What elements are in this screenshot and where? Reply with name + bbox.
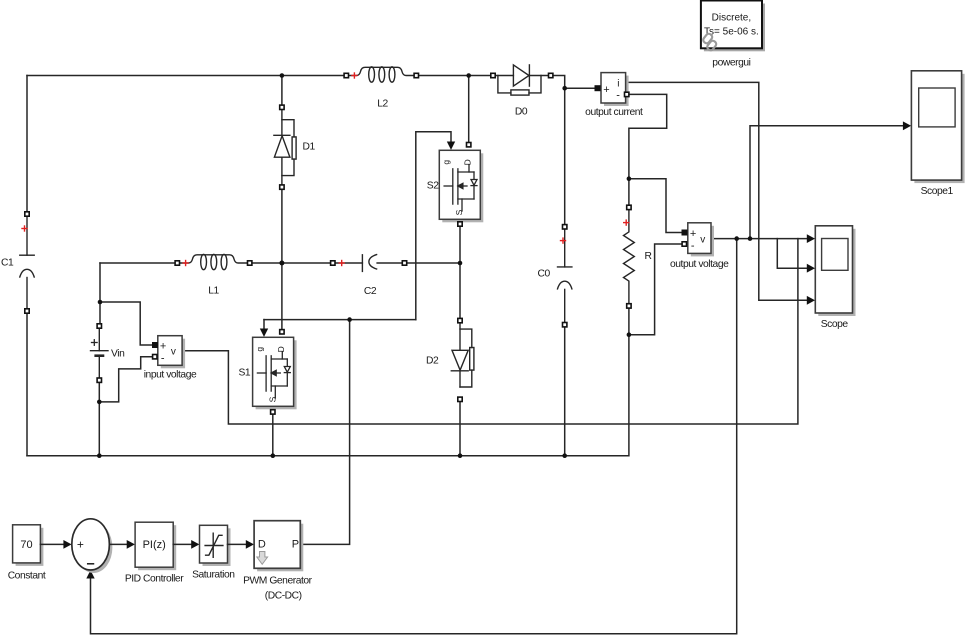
- svg-text:g: g: [441, 160, 451, 165]
- label R: [645, 251, 652, 262]
- wire Vin minus route: [99, 357, 155, 402]
- wire top rail left: [27, 75, 346, 77]
- scope Scope: [815, 226, 855, 316]
- label input voltage: [144, 370, 197, 381]
- svg-text:D: D: [463, 159, 473, 165]
- svg-text:PID Controller: PID Controller: [125, 574, 184, 585]
- constant block 70: [13, 525, 44, 566]
- port D1 bottom: [280, 185, 284, 189]
- port R top: [627, 205, 631, 209]
- wire C0 node drop: [564, 88, 566, 227]
- label powergui: [712, 57, 750, 68]
- port input voltage plus: [152, 342, 158, 348]
- DC source Vin: [91, 328, 109, 378]
- label output current: [585, 107, 643, 118]
- svg-text:R: R: [645, 251, 652, 262]
- arrowhead scope input3: [807, 296, 815, 305]
- port squares open: [25, 73, 687, 414]
- svg-text:-: -: [616, 89, 620, 101]
- arrowhead scope1 input: [903, 121, 911, 130]
- wire node to output voltage plus: [629, 179, 685, 233]
- wire output current minus route: [627, 94, 667, 178]
- wire gate S2 riser: [416, 132, 451, 320]
- voltmeter input voltage: [158, 336, 185, 369]
- red plus C1: [22, 226, 27, 231]
- node bus S1: [271, 453, 276, 458]
- svg-text:powergui: powergui: [712, 57, 750, 68]
- port output current minus: [625, 92, 629, 96]
- capacitor C1: [20, 216, 34, 309]
- diode D1: [274, 109, 296, 185]
- wire PID to saturation: [173, 543, 192, 545]
- label S1: [239, 368, 251, 379]
- wire input voltage to rail: [182, 239, 798, 424]
- red plus L2: [352, 73, 357, 78]
- port C0 top: [563, 225, 567, 229]
- arrowhead into PID: [127, 540, 135, 549]
- svg-text:input voltage: input voltage: [144, 370, 197, 381]
- sum junction block: [72, 519, 113, 573]
- wire saturation to PWM: [228, 543, 248, 545]
- wire L1 to C2: [250, 262, 333, 264]
- powergui block: [701, 1, 765, 52]
- node S2 drain tap: [466, 73, 471, 78]
- capacitor C0: [558, 229, 572, 323]
- node bus D2: [458, 453, 463, 458]
- svg-text:L2: L2: [377, 99, 388, 110]
- red plus C2: [339, 261, 344, 266]
- saturation block: [200, 525, 231, 566]
- port C2 right: [402, 261, 406, 265]
- label C0: [538, 269, 551, 280]
- voltmeter output voltage: [688, 223, 714, 257]
- svg-text:S: S: [454, 209, 464, 215]
- port R bottom: [627, 304, 631, 308]
- svg-text:+: +: [603, 84, 609, 96]
- node R tap: [627, 332, 632, 337]
- svg-text:Vin: Vin: [111, 349, 125, 360]
- wire S1 source to bus: [272, 406, 274, 455]
- label PID Controller: [125, 574, 184, 585]
- PID controller block: [135, 522, 176, 570]
- svg-text:70: 70: [20, 539, 32, 551]
- svg-text:Constant: Constant: [8, 571, 46, 582]
- arrowhead scope input1: [807, 234, 815, 243]
- wire C0 bottom to bus: [564, 325, 566, 456]
- label Vin: [111, 349, 125, 360]
- svg-text:g: g: [254, 347, 264, 352]
- label D0: [515, 107, 528, 118]
- arrowhead scope input2: [807, 264, 815, 273]
- label L1: [208, 286, 219, 297]
- label Scope: [821, 319, 849, 330]
- wire rail to Scope input2: [777, 239, 806, 269]
- port Vin bottom: [97, 378, 101, 382]
- transistor S1: [253, 337, 297, 409]
- node feedback tap: [734, 236, 739, 241]
- svg-text:S2: S2: [427, 181, 439, 192]
- port L2 left: [344, 73, 348, 77]
- node D0 C0: [562, 86, 567, 91]
- scope Scope1: [911, 71, 964, 183]
- port L2 right: [414, 73, 418, 77]
- wire S2 drain drop: [468, 76, 470, 145]
- arrowhead into PWM: [246, 540, 254, 549]
- port input voltage minus: [153, 355, 157, 359]
- diode D2: [451, 323, 474, 387]
- inductor L1: [180, 254, 248, 269]
- node bus Vin: [97, 453, 102, 458]
- node D1 top: [280, 73, 285, 78]
- port Vin top: [97, 324, 101, 328]
- wire C1 left drop: [26, 76, 28, 215]
- arrowhead into sum: [63, 540, 71, 549]
- svg-text:Discrete,: Discrete,: [712, 13, 751, 24]
- svg-text:D0: D0: [515, 107, 528, 118]
- transistor S2: [439, 150, 483, 222]
- port D0 left: [491, 73, 495, 77]
- wire gate rail: [264, 319, 416, 321]
- label D2: [426, 356, 439, 367]
- port C1 bottom: [25, 309, 29, 313]
- port L1 right: [248, 261, 252, 265]
- svg-text:i: i: [617, 78, 619, 89]
- wire PWM output riser: [300, 320, 349, 545]
- port output voltage plus: [682, 230, 688, 236]
- svg-text:(DC-DC): (DC-DC): [265, 591, 302, 602]
- port C2 left: [331, 261, 335, 265]
- label output voltage: [670, 259, 729, 270]
- label Scope1: [921, 186, 954, 197]
- port squares filled: [152, 85, 688, 348]
- wire C2 to node: [405, 262, 461, 264]
- svg-text:+: +: [160, 341, 166, 353]
- svg-text:PI(z): PI(z): [143, 539, 166, 551]
- wire to Scope1: [750, 126, 904, 239]
- wire C1 branch down to Vin: [99, 263, 101, 326]
- label C1: [1, 258, 14, 269]
- label D1: [303, 142, 316, 153]
- wire feedback from output voltage to sum: [91, 239, 737, 634]
- wire D1 to S1 drain: [281, 187, 283, 332]
- svg-text:-: -: [161, 353, 165, 365]
- wire C1 bottom drop: [26, 311, 28, 456]
- port output voltage minus: [682, 242, 686, 246]
- port output current plus: [595, 85, 601, 91]
- port S2 source: [458, 222, 462, 226]
- label Saturation: [192, 570, 235, 581]
- svg-text:Scope: Scope: [821, 319, 849, 330]
- svg-text:C1: C1: [1, 258, 14, 269]
- node R top: [627, 176, 632, 181]
- wire R tap to output voltage minus: [629, 244, 684, 335]
- svg-text:Scope1: Scope1: [921, 186, 954, 197]
- port C0 bottom: [563, 323, 567, 327]
- node scope1 tap: [748, 236, 753, 241]
- wire D2 bottom to bus: [459, 399, 461, 455]
- capacitor C2: [335, 255, 403, 272]
- label L2: [377, 99, 388, 110]
- svg-text:D2: D2: [426, 356, 439, 367]
- port S1 drain: [280, 330, 284, 334]
- port D1 top: [280, 105, 284, 109]
- svg-text:D: D: [276, 346, 286, 352]
- wire bottom bus: [27, 306, 629, 456]
- svg-text:v: v: [171, 347, 176, 358]
- wire node to input voltage plus: [100, 302, 155, 345]
- port S2 drain: [467, 143, 471, 147]
- wire top rail to node D0-C0: [551, 76, 598, 89]
- node Vin bottom: [97, 400, 102, 405]
- svg-text:+: +: [77, 538, 84, 552]
- label C2: [364, 286, 377, 297]
- port S1 source: [271, 410, 275, 414]
- red plus C0: [561, 238, 566, 243]
- svg-text:Saturation: Saturation: [192, 570, 235, 581]
- port D2 top: [458, 318, 462, 322]
- red plus L1: [183, 261, 188, 266]
- svg-text:+: +: [690, 228, 696, 240]
- wire output voltage to Scope input1: [711, 238, 807, 240]
- wire Vin bottom to bus: [98, 380, 100, 456]
- arrowhead feedback into sum: [86, 570, 94, 578]
- node bus C0: [562, 453, 567, 458]
- svg-text:C2: C2: [364, 286, 377, 297]
- node L1 C2 D1 S1: [279, 261, 284, 266]
- ammeter output current: [601, 73, 629, 106]
- svg-text:-: -: [691, 240, 695, 252]
- resistor R: [624, 209, 635, 304]
- port D0 right: [549, 73, 553, 77]
- wire gate S1 drop: [263, 320, 265, 330]
- diode D0: [495, 65, 549, 95]
- svg-text:output voltage: output voltage: [670, 259, 729, 270]
- svg-text:output current: output current: [585, 107, 643, 118]
- port D2 bottom: [458, 397, 462, 401]
- svg-text:L1: L1: [208, 286, 219, 297]
- svg-text:C0: C0: [538, 269, 551, 280]
- red plus R: [624, 220, 629, 225]
- wire top rail mid: [416, 75, 493, 77]
- svg-text:S1: S1: [239, 368, 251, 379]
- svg-text:PWM Generator: PWM Generator: [243, 576, 313, 587]
- arrowhead gate S1: [260, 329, 268, 337]
- wire output current i to Scope input3: [626, 82, 807, 300]
- label DC-DC: [265, 591, 302, 602]
- port C1 top: [25, 212, 29, 216]
- svg-text:D1: D1: [303, 142, 316, 153]
- label S2: [427, 181, 439, 192]
- wire L1 rail corner: [100, 262, 177, 264]
- svg-text:P: P: [292, 539, 299, 551]
- wire S2 source to node: [459, 219, 461, 320]
- polarity marks red: [22, 73, 629, 266]
- wire sum to PID: [109, 543, 128, 545]
- node C1 branch: [98, 300, 103, 305]
- port L1 left: [175, 261, 179, 265]
- svg-text:D: D: [258, 539, 266, 551]
- svg-text:v: v: [700, 234, 705, 245]
- wire D1 top connect: [281, 76, 283, 108]
- PWM generator block: [254, 521, 303, 572]
- arrowhead into saturation: [191, 540, 199, 549]
- node C2 S2 D2: [458, 261, 463, 266]
- label PWM Generator: [243, 576, 313, 587]
- svg-text:S: S: [268, 396, 278, 402]
- node gate split: [347, 317, 352, 322]
- wire constant to sum: [40, 543, 64, 545]
- wire node to R top: [628, 179, 630, 208]
- arrowhead gate S2: [447, 142, 455, 150]
- label Constant: [8, 571, 46, 582]
- inductor L2: [348, 67, 414, 82]
